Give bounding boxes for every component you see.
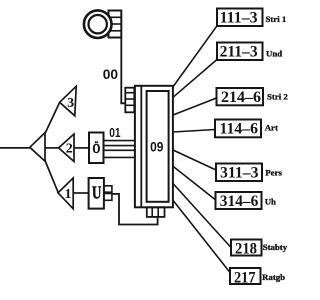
box 311-3 xyxy=(216,164,262,182)
wire bus O to 09 line1 xyxy=(104,140,135,142)
svg-text:Ratgb: Ratgb xyxy=(262,272,285,282)
wire splitter to amp 2 xyxy=(45,147,59,149)
svg-text:3: 3 xyxy=(67,96,74,111)
svg-text:Art: Art xyxy=(265,123,278,133)
svg-text:Stabty: Stabty xyxy=(263,242,288,252)
svg-text:217: 217 xyxy=(234,270,256,287)
wire bus O to 09 line2 xyxy=(104,145,135,147)
wire 09 to box 311-3 xyxy=(173,150,216,170)
box 314-6 xyxy=(216,192,262,209)
svg-text:314–6: 314–6 xyxy=(220,193,259,210)
box U tab lower xyxy=(104,194,112,201)
amp triangle 1 xyxy=(58,178,73,209)
svg-text:Ö: Ö xyxy=(93,140,101,156)
svg-text:01: 01 xyxy=(109,126,121,140)
box 218 xyxy=(231,240,262,256)
box U tab upper xyxy=(104,186,112,192)
connector strip on unit 09 left xyxy=(125,88,134,113)
unit 09 inner wall xyxy=(140,86,142,208)
svg-text:09: 09 xyxy=(150,139,163,155)
box U xyxy=(89,178,104,209)
wire 09 to box 217 xyxy=(173,200,230,272)
wire 09 to box 218 xyxy=(173,184,231,248)
svg-text:311–3: 311–3 xyxy=(220,165,259,182)
box 114-6 xyxy=(215,120,261,138)
svg-text:Uh: Uh xyxy=(265,197,276,207)
wire 09 to box 211-3 xyxy=(173,60,217,98)
svg-text:1: 1 xyxy=(65,187,72,202)
tape spool circle xyxy=(84,10,112,38)
wire amp2 to box O xyxy=(74,147,89,149)
wire 09 to box 214-6 xyxy=(173,98,217,115)
wire U to 09 bottom connector xyxy=(112,194,158,225)
unit 09 bottom connector xyxy=(147,207,165,217)
svg-text:114–6: 114–6 xyxy=(220,120,259,137)
box 214-6 xyxy=(217,88,264,105)
svg-text:218: 218 xyxy=(235,241,257,258)
box 217 xyxy=(230,268,261,284)
svg-text:Und: Und xyxy=(266,48,282,58)
wire 09 to box 314-6 xyxy=(173,166,216,200)
wire bus O to 09 line3 xyxy=(104,149,135,151)
box 211-3 xyxy=(217,43,263,61)
wire from spool to unit 09 connector xyxy=(121,38,125,104)
svg-text:111–3: 111–3 xyxy=(220,9,258,26)
svg-text:211–3: 211–3 xyxy=(220,43,258,60)
svg-text:Pers: Pers xyxy=(265,167,282,177)
splitter triangle xyxy=(30,133,45,162)
box O-umlaut xyxy=(89,133,104,164)
svg-text:214–6: 214–6 xyxy=(221,89,261,106)
antenna feed line xyxy=(0,147,30,149)
box 111-3 xyxy=(217,9,263,27)
wire splitter to amp 1 xyxy=(45,161,58,193)
wire splitter to amp 3 xyxy=(45,103,60,134)
svg-text:Stri 2: Stri 2 xyxy=(267,92,288,102)
svg-text:00: 00 xyxy=(103,67,119,82)
amp triangle 3 xyxy=(60,86,77,116)
wire bus O to 09 line4 xyxy=(104,156,135,158)
unit 09 outer case xyxy=(135,86,173,208)
wire amp1 to box U xyxy=(73,192,88,194)
svg-text:2: 2 xyxy=(66,141,73,156)
wire 09 to box 111-3 xyxy=(173,26,218,88)
amp triangle 2 xyxy=(59,134,74,162)
wire 09 to box 114-6 xyxy=(173,130,215,133)
tape spool hatch box 00 xyxy=(109,11,122,38)
svg-text:U: U xyxy=(92,184,101,204)
svg-text:Stri 1: Stri 1 xyxy=(266,14,287,24)
unit 09 inner panel xyxy=(147,91,169,202)
